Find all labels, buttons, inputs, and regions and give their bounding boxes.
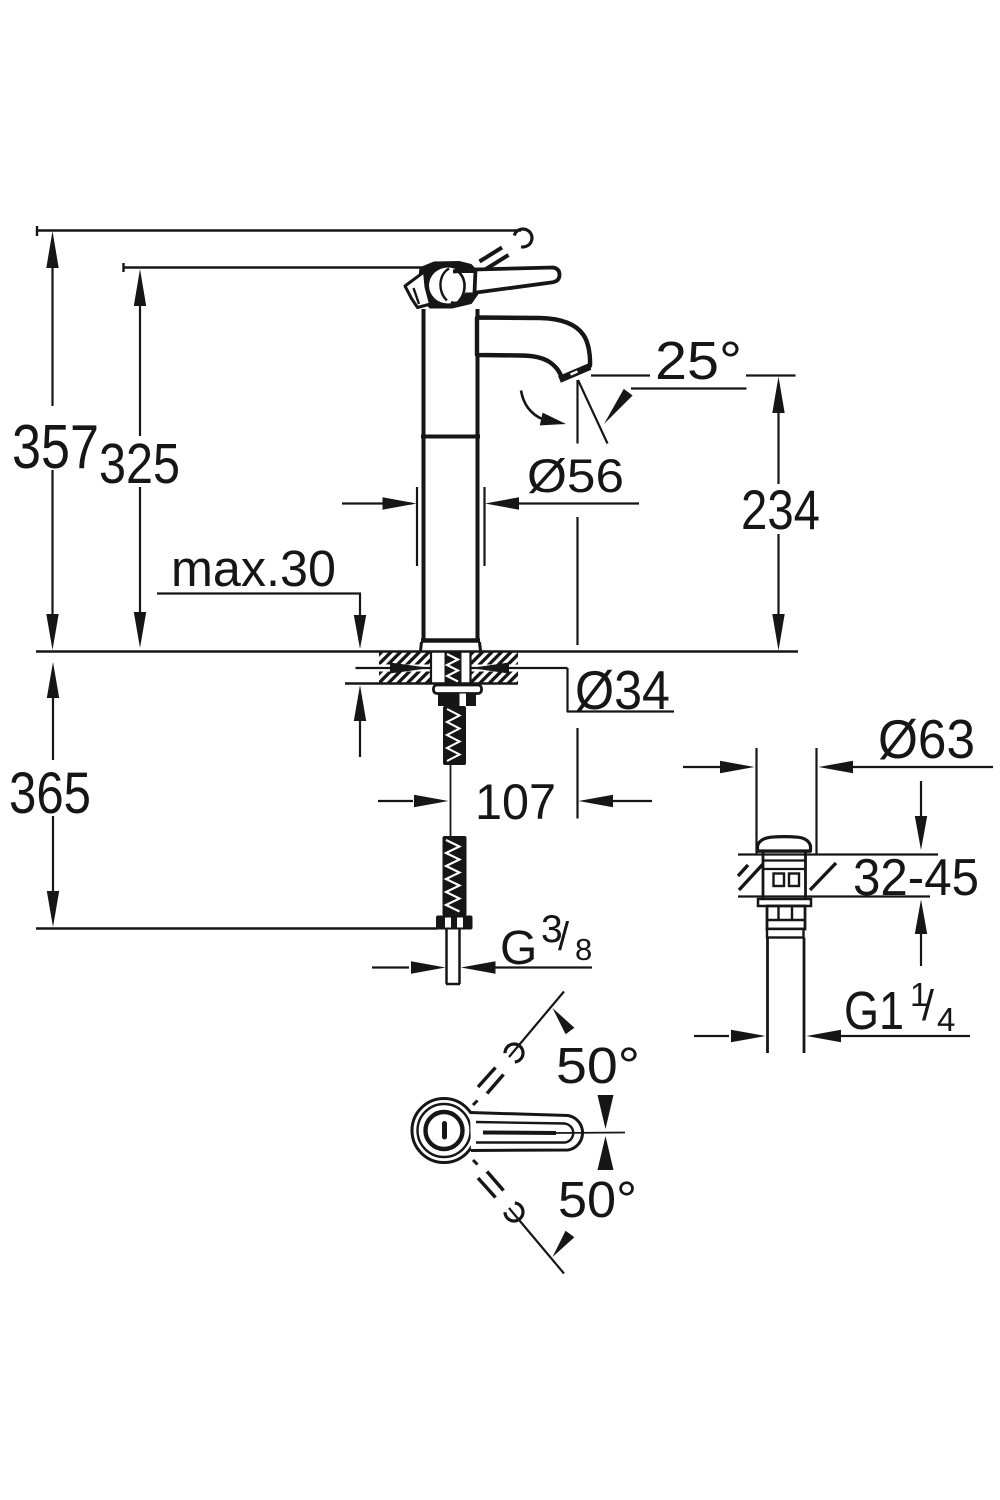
- svg-text:G: G: [500, 922, 537, 975]
- svg-text:234: 234: [741, 478, 820, 541]
- svg-text:107: 107: [475, 774, 556, 830]
- svg-text:Ø56: Ø56: [527, 449, 624, 502]
- svg-text:G1: G1: [844, 981, 904, 1041]
- svg-text:8: 8: [575, 932, 592, 967]
- svg-text:325: 325: [99, 432, 180, 496]
- svg-text:/: /: [558, 915, 570, 959]
- svg-text:/: /: [922, 982, 934, 1030]
- svg-text:365: 365: [9, 761, 91, 826]
- svg-text:357: 357: [12, 413, 99, 482]
- svg-text:50°: 50°: [558, 1171, 637, 1228]
- svg-text:max.30: max.30: [171, 540, 336, 597]
- svg-text:Ø34: Ø34: [575, 659, 670, 721]
- svg-text:4: 4: [937, 1001, 955, 1038]
- svg-text:50°: 50°: [556, 1037, 640, 1094]
- svg-text:Ø63: Ø63: [878, 708, 975, 770]
- svg-text:32-45: 32-45: [853, 849, 979, 907]
- svg-text:25°: 25°: [655, 331, 742, 391]
